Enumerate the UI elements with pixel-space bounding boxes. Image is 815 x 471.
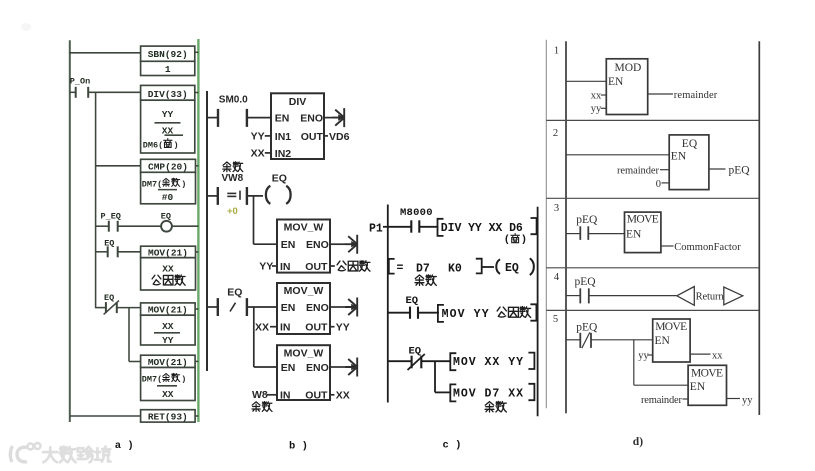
wire rung EQ-MOV1: [96, 251, 108, 253]
wire compare to coil: [482, 266, 494, 268]
branch arrow MOV_W 3: [345, 358, 357, 377]
box operand 1: [141, 61, 195, 75]
svg-text:OUT: OUT: [305, 261, 328, 273]
wire rung EQ-NC: [96, 307, 106, 309]
wire NC contact to MOV2: [117, 307, 141, 309]
svg-text:MOVE: MOVE: [691, 367, 723, 379]
contact P_EQ: [101, 212, 121, 232]
svg-text:DIV: DIV: [289, 96, 307, 108]
contact pEQ normally closed network 5: [566, 332, 591, 348]
svg-text:pEQ: pEQ: [576, 321, 598, 333]
svg-text:pEQ: pEQ: [575, 276, 597, 288]
svg-text:4: 4: [554, 272, 560, 283]
svg-text:xx: xx: [712, 350, 723, 361]
svg-text:P_EQ: P_EQ: [101, 212, 121, 222]
svg-text:SBN(92): SBN(92): [148, 49, 188, 60]
svg-text:EQ: EQ: [505, 262, 519, 275]
coil EQ: [161, 212, 172, 232]
svg-text:EN: EN: [281, 362, 296, 374]
branch vertical c: [434, 361, 436, 392]
svg-text:EN: EN: [281, 302, 296, 314]
svg-text:K0: K0: [448, 262, 462, 275]
svg-text:CommonFactor: CommonFactor: [674, 242, 741, 253]
svg-text:MOVE: MOVE: [655, 321, 687, 333]
svg-text:YY: YY: [251, 131, 265, 143]
svg-text:OUT: OUT: [305, 322, 328, 334]
svg-text:VW8: VW8: [222, 173, 244, 184]
branch arrow DIV: [332, 108, 344, 127]
bracket close MOV1 c: [530, 304, 536, 320]
tick SBN to right rail: [195, 51, 199, 53]
svg-text:VD6: VD6: [329, 131, 350, 143]
svg-text:a ): a ): [115, 440, 134, 452]
svg-text:DIV YY XX D6: DIV YY XX D6: [441, 222, 523, 235]
watermark logo: [10, 443, 40, 462]
return symbol: [677, 287, 743, 306]
wire OUT to VD6: [324, 131, 350, 143]
coil EQ c: [496, 258, 534, 275]
wire rung SBN: [69, 52, 141, 54]
contact EQ normally closed: [104, 293, 119, 314]
wire MOD out to remainder: [648, 90, 718, 101]
svg-text:MOD: MOD: [615, 62, 642, 74]
branch vertical B1: [95, 92, 97, 308]
operand W8 to IN 3: [252, 389, 277, 401]
tick MOV2 to right rail: [195, 308, 198, 310]
branch vertical d: [633, 340, 635, 385]
svg-text:YY: YY: [162, 335, 174, 346]
box MOV_W third: [277, 345, 330, 401]
wire contact to MOVE net3: [588, 233, 624, 235]
left power rail d: [565, 41, 567, 413]
box MOV1 operands: [141, 258, 196, 290]
svg-text:EN: EN: [626, 229, 642, 241]
wire ENO out 1: [330, 243, 346, 245]
svg-text:EN: EN: [275, 113, 290, 125]
wire MOVE2 out to yy: [727, 395, 754, 406]
box MOV(21) first: [141, 246, 196, 258]
box SBN(92): [141, 46, 195, 61]
svg-text:IN2: IN2: [275, 148, 292, 160]
operand XX to IN 2: [255, 321, 277, 333]
svg-text:MOV_W: MOV_W: [284, 347, 324, 359]
tick MOV3 to right rail: [195, 360, 198, 362]
branch vertical to MOV_W 3: [253, 307, 255, 367]
svg-text:OUT: OUT: [305, 389, 328, 401]
svg-text:yy: yy: [742, 395, 753, 406]
svg-text:XX: XX: [162, 264, 174, 275]
box DIV operands: [141, 100, 195, 153]
operand xx: [591, 90, 607, 101]
svg-text:MOV XX YY: MOV XX YY: [453, 356, 523, 369]
svg-text:MOVE: MOVE: [627, 214, 659, 226]
svg-text:ENO: ENO: [306, 302, 329, 314]
separator network 1/2: [546, 119, 759, 121]
contact pEQ network 4: [566, 288, 589, 303]
svg-text:M8000: M8000: [400, 207, 433, 219]
bracket close DIV: [531, 218, 537, 234]
label 余数 VW8: [222, 162, 244, 184]
bracket close MOV3 c: [528, 384, 534, 400]
branch arrow MOV_W 1: [345, 235, 357, 254]
box MOVE network 5 second: [688, 365, 726, 405]
wire OUT to YY: [330, 321, 350, 333]
svg-text:pEQ: pEQ: [576, 214, 598, 226]
svg-text:P1: P1: [369, 223, 383, 236]
wire NC contact to MOV2: [421, 360, 451, 362]
svg-text:EN: EN: [655, 335, 671, 347]
svg-text:yy: yy: [591, 104, 602, 115]
svg-text:MOV(21): MOV(21): [148, 247, 188, 258]
wire contact EQ to MOV1: [118, 251, 141, 253]
bracket open compare: [389, 259, 395, 274]
svg-text:MOV_W: MOV_W: [284, 222, 324, 234]
svg-text:MOV(21): MOV(21): [148, 304, 188, 315]
bracket open MOV2 c: [450, 353, 456, 370]
svg-text:YY: YY: [162, 109, 174, 120]
svg-text:b ): b ): [289, 441, 308, 453]
svg-text:EN: EN: [690, 381, 706, 393]
svg-text:EQ: EQ: [272, 172, 287, 184]
wire branch to MOV_W 1: [254, 243, 278, 245]
svg-text:#0: #0: [162, 192, 174, 203]
svg-text:IN: IN: [280, 322, 291, 334]
left power rail c: [387, 205, 389, 403]
svg-text:): ): [181, 375, 186, 385]
svg-text:SM0.0: SM0.0: [219, 95, 248, 106]
contact EQ: [104, 239, 118, 258]
svg-text:IN: IN: [280, 261, 291, 273]
box MOV_W second: [277, 283, 330, 334]
svg-text:MOV YY: MOV YY: [442, 308, 489, 321]
box MOVE network 3: [625, 212, 661, 253]
label (商): [504, 234, 527, 246]
wire NC contact to MOVE net5: [591, 339, 653, 341]
contact SM0.0: [207, 109, 247, 127]
coil EQ: [266, 172, 291, 204]
contact P_On: [70, 77, 90, 98]
operand yy to MOVE1: [638, 351, 652, 362]
svg-text:EN: EN: [608, 76, 624, 88]
svg-text:d): d): [633, 436, 643, 448]
wire contact to Return: [589, 295, 677, 297]
svg-text:EQ: EQ: [409, 345, 422, 357]
contact equality ==I: [207, 187, 247, 205]
svg-text:xx: xx: [591, 90, 602, 101]
box DIV(33): [141, 85, 195, 100]
operand XX to IN2: [251, 148, 271, 160]
svg-text:EQ: EQ: [406, 295, 419, 307]
wire ENO out 3: [330, 366, 346, 368]
right power rail a: [197, 39, 199, 422]
wire rung P_EQ: [96, 225, 109, 227]
wire OUT to XX 3: [330, 389, 350, 401]
svg-text:DIV(33): DIV(33): [148, 89, 188, 100]
wire rung RET: [70, 415, 141, 417]
right power rail d: [758, 41, 760, 415]
svg-text:EQ: EQ: [104, 239, 114, 249]
branch vertical B2: [128, 308, 130, 362]
svg-text:0: 0: [656, 179, 661, 190]
wire contact to MOV instruction: [418, 312, 439, 314]
svg-text:2: 2: [553, 128, 558, 139]
svg-text:YY: YY: [336, 321, 350, 333]
svg-text:remainder: remainder: [641, 395, 683, 406]
svg-text:+0: +0: [227, 206, 238, 217]
box MOV2 operands: [141, 315, 196, 346]
wire rung CMP: [96, 165, 141, 167]
svg-text:yy: yy: [638, 351, 649, 362]
box MOD: [606, 59, 647, 115]
svg-text:W8: W8: [252, 389, 268, 401]
wire EN EQ: [566, 154, 669, 156]
svg-text:=: =: [397, 262, 404, 275]
svg-text:pEQ: pEQ: [729, 165, 751, 177]
wire branch to MOVE2 net5: [634, 384, 688, 386]
wire ENO out: [324, 117, 333, 119]
svg-text:MOV D7 XX: MOV D7 XX: [453, 388, 523, 401]
tick CMP to right rail: [196, 165, 199, 167]
operand remainder to MOVE2: [641, 395, 688, 406]
tick DIV to right rail: [195, 92, 199, 94]
svg-text:5: 5: [553, 314, 558, 325]
svg-text:): ): [174, 141, 179, 151]
svg-text:DM6(: DM6(: [143, 141, 163, 151]
box EQ: [669, 135, 709, 190]
svg-text:RET(93): RET(93): [148, 411, 188, 422]
wire P_On to DIV: [88, 91, 140, 93]
faint smudge top-left: [21, 23, 31, 31]
wire EN MOD: [566, 80, 606, 82]
operand yy: [591, 104, 607, 115]
separator network 4/5: [546, 309, 759, 311]
svg-text:YY: YY: [259, 261, 273, 273]
svg-text:CMP(20): CMP(20): [148, 162, 188, 173]
svg-text:MOV_W: MOV_W: [284, 285, 324, 297]
separator network 2/3: [546, 197, 759, 199]
bracket open MOV3 c: [450, 384, 456, 401]
box MOV(21) second: [141, 303, 196, 316]
operand YY to IN: [259, 261, 277, 273]
box DIV: [271, 93, 324, 160]
left power rail a: [69, 40, 71, 422]
thin left border d: [545, 40, 547, 409]
right power rail c: [537, 207, 539, 416]
contact pEQ network 3: [566, 226, 588, 240]
wire contact to coil: [118, 225, 162, 227]
svg-text:Return: Return: [696, 292, 725, 303]
svg-text:(: (: [504, 234, 510, 246]
svg-text:DM7(: DM7(: [142, 179, 162, 189]
instruction = D7 K0: [397, 262, 462, 275]
svg-text:EN: EN: [281, 239, 296, 251]
svg-text:OUT: OUT: [301, 131, 324, 143]
wire B2 to MOV3: [129, 361, 141, 363]
svg-text:XX: XX: [255, 321, 269, 333]
contact EQ normally closed c: [388, 354, 425, 370]
svg-text:3: 3: [554, 203, 559, 214]
box CMP(20): [141, 159, 196, 172]
box MOV3 operands: [141, 368, 196, 401]
svg-text:D7: D7: [416, 262, 430, 275]
wire contact to DIV instruction: [419, 226, 438, 228]
svg-text:c ): c ): [443, 439, 462, 451]
bracket close compare: [476, 259, 482, 274]
label 余数 under D7: [415, 275, 436, 286]
svg-text:EQ: EQ: [682, 138, 698, 150]
contact M8000: [388, 220, 420, 232]
operand 0 to EQ: [656, 179, 669, 190]
svg-text:EQ: EQ: [104, 293, 114, 303]
svg-text:remainder: remainder: [617, 166, 660, 177]
left power rail b: [206, 91, 208, 371]
bracket open MOV1 c: [438, 305, 444, 322]
wire EQ out to pEQ: [709, 165, 750, 177]
branch vertical to MOV_W 1: [253, 196, 255, 244]
wire MOVE1 out to xx: [690, 350, 723, 361]
wire OUT to 公因数: [330, 261, 370, 272]
label 余数 below W8: [252, 402, 272, 412]
wire NC contact to MOV_W 2: [247, 306, 277, 308]
box RET(93): [141, 410, 196, 423]
instruction MOV YY 公因数: [442, 307, 531, 321]
box MOV(21) third: [141, 355, 196, 368]
box MOV_W first: [277, 220, 330, 273]
svg-text:ENO: ENO: [306, 362, 329, 374]
wire contact to DIV box: [247, 117, 271, 119]
separator network 3/4: [546, 267, 759, 269]
svg-text:XX: XX: [336, 389, 350, 401]
bracket close MOV2 c: [528, 353, 534, 369]
box CMP operands: [141, 172, 196, 204]
svg-text:DM7(: DM7(: [142, 375, 162, 385]
svg-text:IN: IN: [280, 389, 291, 401]
label 余数 under D7 second: [485, 401, 506, 412]
wire branch to MOV_W 3: [254, 366, 277, 368]
watermark text 大数跨境: [43, 447, 111, 463]
svg-text:P_On: P_On: [70, 77, 90, 87]
svg-text:1: 1: [554, 46, 559, 57]
contact EQ c: [388, 307, 418, 319]
svg-text:EQ: EQ: [227, 287, 242, 299]
svg-text:ENO: ENO: [300, 113, 323, 125]
tick MOV1 to right rail: [196, 251, 199, 253]
operand YY to IN1: [251, 131, 271, 143]
branch arrow MOV_W 2: [345, 298, 357, 317]
svg-text:): ): [521, 234, 527, 246]
bracket open DIV: [438, 219, 444, 236]
wire P1 to rail: [383, 226, 388, 228]
wire coil to right rail: [172, 225, 199, 227]
svg-text:1: 1: [165, 64, 171, 75]
svg-text:IN1: IN1: [275, 131, 292, 143]
svg-text:remainder: remainder: [674, 90, 718, 101]
svg-text:ENO: ENO: [306, 239, 329, 251]
svg-text:XX: XX: [251, 148, 265, 160]
svg-text:XX: XX: [162, 389, 174, 400]
wire contact to coil: [247, 195, 263, 197]
svg-text:): ): [181, 179, 186, 189]
wire ENO out 2: [330, 306, 346, 308]
tick RET to right rail: [195, 415, 198, 417]
svg-text:MOV(21): MOV(21): [148, 357, 188, 368]
svg-text:XX: XX: [162, 321, 174, 332]
svg-text:EN: EN: [671, 151, 687, 163]
box MOVE network 5 first: [653, 319, 690, 362]
wire branch to MOV3: [435, 391, 451, 393]
wire MOVE out to CommonFactor: [661, 242, 741, 253]
operand remainder to EQ: [617, 166, 669, 177]
contact EQ normally closed b: [207, 298, 247, 316]
